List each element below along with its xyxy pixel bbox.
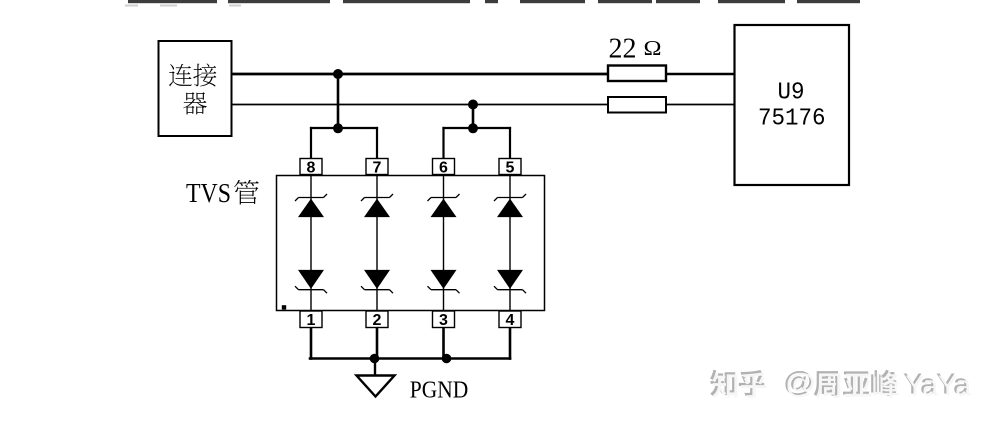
wire: pin 4 to ground bus [509,328,512,360]
pin 8 [300,159,322,177]
wire: tie bar pins 8-7 [310,127,378,129]
wire: top line A from connector to resistor R1 [231,73,609,76]
TVS diode D1a (upper, cathode up) [295,194,327,217]
svg-text:3: 3 [439,312,448,329]
wire: column 3 internal [443,176,445,311]
junction dot on 6-5 tie [468,123,478,133]
svg-text:6: 6 [439,159,448,176]
wire: pin 7 stub [376,127,378,159]
svg-text:8: 8 [307,159,316,176]
pin 1 [300,311,322,329]
wire: second line B from connector to resistor R2 [231,104,609,106]
TVS diode D2a (upper, cathode up) [361,194,393,217]
pin 6 [433,159,455,177]
TVS diode D4b (lower, cathode down) [494,270,526,293]
label TVS管 [186,177,259,208]
wire: column 2 internal [376,176,378,311]
wire: pin 1 to ground bus [310,328,313,360]
junction dot on 8-7 tie [333,123,343,133]
connector box 连接器 [159,41,232,136]
svg-text:@: @ [785,368,816,399]
pin 3 [433,311,455,329]
wire: tie bar pins 6-5 [442,127,511,129]
IC U9 75176 [735,25,850,185]
svg-text:Ω: Ω [644,36,662,60]
svg-text:PGND: PGND [410,376,469,403]
resistor R2 [608,97,666,113]
junction dot on bus below pin 3 [442,354,452,364]
svg-text:4: 4 [506,312,515,329]
TVS diode D4a (upper, cathode up) [494,194,526,217]
wire: pin 2 to ground bus [376,328,379,360]
wire: R2 to U9 [666,104,735,106]
wire: pin 5 stub [509,127,511,159]
pin-1 marker [282,305,286,309]
resistor R1 [608,66,666,82]
wire: column 1 internal [310,176,312,311]
pin 7 [366,159,388,177]
svg-text:75176: 75176 [758,106,826,133]
junction dot on bus below pin 2 [370,354,380,364]
svg-text:TVS: TVS [186,177,231,208]
junction dot on line B [468,100,478,110]
svg-text:7: 7 [373,159,382,176]
pin 2 [366,311,388,329]
label 22 Ω [609,34,662,65]
svg-text:5: 5 [506,159,515,176]
TVS diode D3b (lower, cathode down) [428,270,460,293]
pin 4 [499,311,521,329]
wire: vertical drop from line B to pins 6-5 tie [472,105,475,129]
wire: pin 8 stub [310,127,312,159]
wire: R1 to U9 [666,73,735,75]
TVS diode D2b (lower, cathode down) [361,270,393,293]
wire: ground bus [309,357,512,359]
TVS diode D3a (upper, cathode up) [428,194,460,217]
svg-text:2: 2 [373,312,382,329]
svg-text:22: 22 [609,34,637,65]
pin 5 [499,159,521,177]
svg-text:1: 1 [307,312,316,329]
junction dot on line A [333,69,343,79]
wire: pin 3 to ground bus [442,328,445,360]
wire: vertical drop from line A to pins 8-7 tie [337,74,340,128]
TVS array body [277,176,545,311]
svg-text:U9: U9 [778,80,805,107]
wire: bus to ground symbol [374,359,376,376]
svg-text:YaYa: YaYa [905,371,972,403]
TVS diode D1b (lower, cathode down) [295,270,327,293]
watermark 知乎 @周亚峰 YaYa [710,366,972,403]
wire: pin 6 stub [442,127,444,159]
ground symbol PGND [357,376,395,397]
wire: column 4 internal [509,176,511,311]
